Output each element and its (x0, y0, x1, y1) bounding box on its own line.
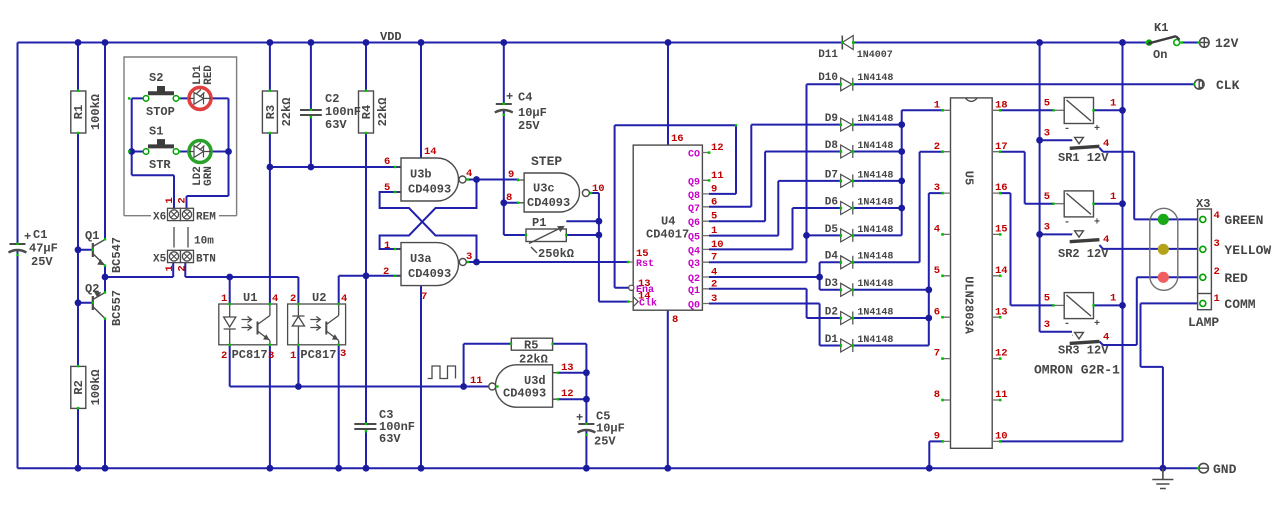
svg-text:8: 8 (506, 192, 512, 204)
svg-text:3: 3 (711, 293, 717, 305)
svg-text:1N4148: 1N4148 (857, 252, 893, 263)
svg-text:10μF: 10μF (596, 422, 625, 436)
svg-text:11: 11 (995, 389, 1008, 401)
svg-text:3: 3 (1214, 238, 1220, 250)
svg-text:D7: D7 (825, 169, 838, 181)
svg-text:SR1 12V: SR1 12V (1058, 151, 1109, 165)
svg-text:C4: C4 (518, 91, 532, 105)
svg-text:1: 1 (221, 293, 227, 305)
svg-text:Q9: Q9 (688, 177, 700, 188)
svg-text:+: + (1094, 217, 1100, 228)
svg-text:S2: S2 (149, 71, 163, 85)
svg-text:U3c: U3c (533, 182, 555, 196)
svg-text:YELLOW: YELLOW (1224, 243, 1271, 258)
svg-text:2: 2 (177, 265, 189, 271)
svg-text:VDD: VDD (380, 30, 402, 44)
svg-text:LAMP: LAMP (1188, 315, 1219, 330)
svg-text:1N4148: 1N4148 (857, 197, 893, 208)
svg-text:U5: U5 (962, 171, 976, 185)
svg-text:10: 10 (592, 183, 605, 195)
svg-text:ULN2803A: ULN2803A (962, 276, 976, 334)
svg-text:5: 5 (384, 182, 390, 194)
svg-text:3: 3 (340, 348, 346, 360)
svg-text:STOP: STOP (146, 105, 175, 119)
svg-text:5: 5 (1044, 191, 1050, 203)
svg-text:2: 2 (290, 293, 296, 305)
svg-text:14: 14 (424, 146, 437, 158)
svg-text:25V: 25V (518, 119, 540, 133)
svg-text:3: 3 (466, 251, 472, 263)
svg-text:Clk: Clk (639, 298, 657, 310)
svg-text:D3: D3 (825, 278, 839, 290)
svg-text:X3: X3 (1196, 197, 1210, 211)
svg-text:1N4148: 1N4148 (857, 307, 893, 318)
svg-text:GREEN: GREEN (1224, 213, 1263, 228)
svg-text:Q2: Q2 (85, 282, 99, 296)
svg-text:3: 3 (934, 182, 940, 194)
svg-text:C2: C2 (325, 92, 339, 106)
svg-text:63V: 63V (325, 118, 347, 132)
svg-text:1: 1 (711, 225, 717, 237)
svg-text:3: 3 (268, 350, 274, 362)
svg-text:D4: D4 (825, 251, 839, 263)
svg-text:1N4007: 1N4007 (857, 50, 893, 61)
svg-text:X5: X5 (153, 254, 167, 266)
svg-text:-: - (1064, 124, 1070, 135)
svg-text:X6: X6 (153, 212, 166, 224)
svg-text:BC547: BC547 (110, 237, 124, 273)
svg-text:1: 1 (934, 99, 940, 111)
svg-text:4: 4 (272, 293, 278, 305)
svg-text:U3a: U3a (410, 252, 432, 266)
svg-text:+: + (506, 90, 513, 104)
svg-text:13: 13 (561, 362, 574, 374)
svg-text:BC557: BC557 (110, 290, 124, 326)
svg-text:4: 4 (934, 224, 940, 236)
svg-text:8: 8 (934, 389, 940, 401)
svg-text:1N4148: 1N4148 (857, 170, 893, 181)
svg-text:25V: 25V (594, 435, 616, 449)
svg-text:K1: K1 (1154, 21, 1168, 35)
svg-text:CD4093: CD4093 (408, 183, 451, 197)
svg-text:GND: GND (1213, 462, 1237, 477)
svg-text:12: 12 (561, 388, 574, 400)
svg-text:1: 1 (1110, 293, 1116, 305)
svg-text:RED: RED (1224, 271, 1248, 286)
svg-text:1N4148: 1N4148 (857, 114, 893, 125)
svg-text:D1: D1 (825, 334, 839, 346)
svg-text:3: 3 (1044, 128, 1050, 140)
svg-text:D5: D5 (825, 224, 839, 236)
svg-text:5: 5 (1044, 293, 1050, 305)
svg-text:25V: 25V (31, 255, 53, 269)
svg-text:CD4017: CD4017 (646, 228, 689, 242)
svg-text:PC817: PC817 (300, 348, 336, 362)
svg-text:P1: P1 (532, 216, 546, 230)
svg-text:CD4093: CD4093 (408, 267, 451, 281)
svg-text:3: 3 (1044, 222, 1050, 234)
svg-text:5: 5 (711, 211, 717, 223)
svg-text:Rst: Rst (636, 259, 654, 270)
svg-text:2: 2 (711, 278, 717, 290)
svg-text:7: 7 (711, 252, 717, 264)
svg-text:8: 8 (672, 314, 678, 326)
svg-text:4: 4 (711, 267, 717, 279)
svg-text:D2: D2 (825, 306, 838, 318)
svg-text:6: 6 (934, 306, 940, 318)
svg-text:1: 1 (1214, 293, 1220, 305)
svg-text:1: 1 (384, 240, 390, 252)
svg-text:3: 3 (1044, 319, 1050, 331)
svg-text:9: 9 (711, 183, 717, 195)
svg-text:OMRON G2R-1: OMRON G2R-1 (1034, 363, 1120, 378)
svg-text:Ena: Ena (636, 285, 654, 296)
svg-text:10: 10 (995, 431, 1008, 443)
svg-text:15: 15 (995, 224, 1008, 236)
svg-text:100kΩ: 100kΩ (89, 94, 103, 130)
svg-text:4: 4 (341, 293, 347, 305)
svg-text:4: 4 (1103, 332, 1109, 344)
svg-text:1N4148: 1N4148 (857, 225, 893, 236)
svg-text:12: 12 (995, 348, 1008, 360)
svg-text:100nF: 100nF (325, 105, 361, 119)
svg-text:22kΩ: 22kΩ (280, 98, 294, 127)
svg-text:14: 14 (995, 265, 1008, 277)
svg-text:CD4093: CD4093 (503, 387, 546, 401)
svg-text:S1: S1 (149, 125, 163, 139)
svg-text:2: 2 (934, 141, 940, 153)
svg-text:+: + (576, 411, 583, 425)
svg-text:STR: STR (149, 158, 171, 172)
svg-text:Q3: Q3 (688, 259, 700, 270)
svg-text:1: 1 (164, 265, 176, 271)
svg-text:U2: U2 (312, 291, 326, 305)
svg-text:4: 4 (1214, 210, 1220, 222)
svg-text:11: 11 (470, 375, 483, 387)
svg-text:1: 1 (1110, 98, 1116, 110)
svg-text:Q1: Q1 (688, 286, 700, 297)
svg-text:13: 13 (995, 306, 1008, 318)
svg-text:4: 4 (1103, 138, 1109, 150)
svg-text:R2: R2 (72, 380, 86, 394)
svg-text:RED: RED (203, 65, 215, 85)
svg-text:63V: 63V (379, 432, 401, 446)
svg-text:STEP: STEP (531, 154, 562, 169)
svg-text:R1: R1 (72, 105, 86, 119)
svg-text:U1: U1 (243, 291, 257, 305)
svg-text:U4: U4 (661, 215, 675, 229)
svg-text:7: 7 (421, 291, 427, 303)
svg-text:GRN: GRN (203, 166, 215, 186)
svg-text:PC817: PC817 (232, 348, 268, 362)
svg-text:4: 4 (1103, 234, 1109, 246)
svg-text:7: 7 (934, 348, 940, 360)
svg-text:SR2 12V: SR2 12V (1058, 247, 1109, 261)
svg-text:9: 9 (508, 169, 514, 181)
svg-text:1: 1 (1110, 191, 1116, 203)
svg-text:2: 2 (177, 197, 189, 203)
svg-text:Q4: Q4 (688, 246, 700, 257)
svg-text:-: - (1064, 217, 1070, 228)
svg-text:16: 16 (995, 182, 1008, 194)
svg-text:22kΩ: 22kΩ (376, 98, 390, 127)
svg-text:R3: R3 (264, 105, 278, 119)
svg-text:18: 18 (995, 99, 1008, 111)
svg-text:CO: CO (688, 150, 700, 161)
svg-text:+: + (1094, 319, 1100, 330)
svg-text:On: On (1153, 48, 1167, 62)
svg-text:+: + (1094, 124, 1100, 135)
svg-text:CLK: CLK (1216, 78, 1240, 93)
svg-text:6: 6 (711, 196, 717, 208)
svg-text:Q5: Q5 (688, 233, 700, 244)
svg-text:5: 5 (1044, 98, 1050, 110)
svg-text:12V: 12V (1215, 36, 1239, 51)
svg-text:Q7: Q7 (688, 204, 700, 215)
svg-text:1: 1 (290, 350, 296, 362)
svg-text:D9: D9 (825, 113, 838, 125)
svg-text:1N4148: 1N4148 (857, 141, 893, 152)
svg-text:1N4148: 1N4148 (857, 279, 893, 290)
svg-text:12: 12 (711, 142, 724, 154)
svg-text:Q6: Q6 (688, 218, 700, 229)
svg-text:2: 2 (383, 266, 389, 278)
svg-text:C1: C1 (33, 228, 47, 242)
svg-text:Q2: Q2 (688, 274, 700, 285)
svg-text:1N4148: 1N4148 (857, 73, 893, 84)
svg-text:22kΩ: 22kΩ (519, 353, 548, 367)
svg-text:10m: 10m (194, 236, 214, 248)
svg-text:11: 11 (711, 170, 724, 182)
svg-text:4: 4 (466, 168, 472, 180)
svg-text:1N4148: 1N4148 (857, 335, 893, 346)
svg-text:250kΩ: 250kΩ (538, 247, 574, 261)
svg-text:10μF: 10μF (518, 106, 547, 120)
svg-text:COMM: COMM (1224, 297, 1255, 312)
svg-text:D8: D8 (825, 140, 839, 152)
svg-text:D11: D11 (818, 49, 838, 61)
svg-text:1: 1 (164, 197, 176, 203)
svg-text:16: 16 (671, 133, 684, 145)
svg-text:6: 6 (384, 156, 390, 168)
svg-text:2: 2 (1214, 266, 1220, 278)
svg-text:D6: D6 (825, 196, 838, 208)
svg-text:R4: R4 (360, 105, 374, 119)
svg-text:17: 17 (995, 141, 1008, 153)
svg-text:100kΩ: 100kΩ (89, 369, 103, 405)
svg-text:5: 5 (934, 265, 940, 277)
svg-text:R5: R5 (524, 339, 538, 353)
svg-text:9: 9 (934, 431, 940, 443)
svg-text:10: 10 (711, 239, 724, 251)
svg-text:Q8: Q8 (688, 191, 700, 202)
svg-text:47μF: 47μF (29, 242, 58, 256)
svg-text:Q1: Q1 (85, 229, 99, 243)
svg-text:SR3 12V: SR3 12V (1058, 344, 1109, 358)
svg-text:REM: REM (196, 212, 216, 224)
svg-text:CD4093: CD4093 (527, 196, 570, 210)
svg-text:U3b: U3b (410, 168, 432, 182)
svg-text:D10: D10 (818, 72, 838, 84)
svg-text:BTN: BTN (196, 254, 216, 266)
svg-text:2: 2 (221, 350, 227, 362)
svg-text:Q0: Q0 (688, 301, 700, 312)
svg-text:-: - (1064, 319, 1070, 330)
